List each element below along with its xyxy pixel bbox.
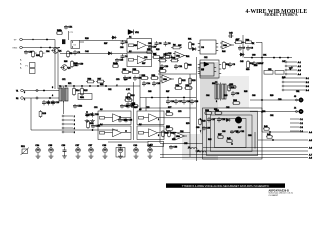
wire amp out1 — [164, 117, 190, 119]
jack J4 pin — [296, 111, 298, 113]
capacitor C50 — [148, 45, 152, 49]
scan shading region D — [218, 76, 249, 108]
pin stub P2-2 — [62, 119, 64, 121]
resistor R39 — [168, 130, 171, 137]
ground C22 — [85, 119, 90, 123]
capacitor C7 — [238, 46, 242, 51]
ground of C35 — [49, 155, 54, 159]
capacitor C22 — [85, 112, 89, 117]
junction rb b — [125, 130, 126, 131]
resistor R55 — [121, 71, 130, 74]
capacitor C1 (polarized block) — [62, 39, 65, 44]
ground of C39 — [118, 155, 123, 159]
shield box mid — [207, 112, 258, 156]
junction jack1 a — [261, 99, 262, 100]
connector block P3 — [30, 63, 36, 74]
svg-text:C74: C74 — [94, 107, 97, 109]
svg-text:R23: R23 — [156, 49, 159, 51]
capacitor C27 — [207, 117, 211, 122]
wire x140 v — [139, 74, 141, 111]
capacitor C24 — [120, 104, 124, 108]
op-amp U6A — [160, 75, 174, 83]
scan shading region B — [206, 110, 258, 156]
resistor R33 — [204, 112, 212, 115]
junction x92 b — [92, 129, 93, 130]
wire bus y97.5 — [140, 97, 196, 99]
capacitor C55b — [118, 118, 122, 122]
diode CR6 (dark) — [204, 62, 209, 67]
junction y57 d — [279, 57, 280, 58]
resistor R41 — [266, 135, 273, 138]
wire tip — [22, 39, 55, 41]
svg-text:R91: R91 — [262, 111, 265, 113]
capacitor C6 — [164, 41, 168, 46]
wire x262 v2 — [261, 58, 263, 76]
svg-text:R73: R73 — [86, 115, 89, 117]
wire x262 v — [261, 42, 263, 58]
svg-text:A-7: A-7 — [309, 153, 312, 156]
wire y132 long — [262, 131, 308, 133]
svg-text:C62: C62 — [108, 89, 111, 91]
resistor R58 — [130, 105, 139, 108]
scan shading region C — [182, 134, 203, 160]
capacitor C47b — [126, 102, 130, 107]
svg-text:R1: R1 — [16, 98, 18, 100]
resistor R3 — [67, 50, 70, 58]
capacitor C48 — [24, 50, 28, 54]
capacitor C28 — [217, 117, 221, 122]
node K1 (dark circle) — [235, 117, 241, 123]
resistor R4 — [152, 56, 161, 59]
svg-text:6: 6 — [158, 135, 159, 137]
wire tip drop — [54, 40, 56, 90]
resistor R25 — [184, 87, 193, 90]
capacitor C52b — [73, 104, 77, 108]
svg-text:C31: C31 — [263, 55, 266, 57]
svg-text:C52: C52 — [268, 69, 271, 71]
capacitor C32 — [236, 130, 240, 134]
wire y157 long — [160, 157, 308, 159]
wire y42 right — [256, 41, 262, 43]
svg-text:R50: R50 — [246, 69, 249, 71]
wire jack1 — [250, 99, 299, 101]
capacitor C21 — [174, 64, 178, 69]
junction y57 b — [261, 57, 262, 58]
hybrid amplifier A3 — [98, 111, 131, 125]
svg-text:C47: C47 — [282, 61, 285, 63]
terminal E4 — [21, 97, 24, 100]
resistor R59 — [87, 120, 90, 129]
wire y142 — [108, 141, 148, 143]
resistor R5 — [162, 56, 171, 59]
svg-text:R67: R67 — [166, 91, 169, 93]
junction ring-a — [40, 47, 41, 48]
capacitor C29 — [230, 130, 234, 134]
op-amp U8A — [173, 132, 187, 140]
pin stub P2-4 — [62, 127, 64, 129]
wire ring link — [58, 47, 60, 49]
wire y140 long — [258, 139, 308, 141]
svg-text:8: 8 — [52, 87, 53, 89]
pin stub P2-1 — [62, 115, 64, 117]
junction y72 a — [129, 71, 130, 72]
capacitor C49 — [202, 126, 206, 130]
wire amp out2 — [164, 132, 190, 134]
hybrid amplifier A1 — [127, 39, 152, 53]
diode CR2 — [107, 52, 112, 55]
hybrid amplifier A6 — [137, 126, 164, 140]
resistor R30 — [165, 128, 173, 131]
junction ring-b — [49, 47, 50, 48]
svg-text:U4A: U4A — [223, 44, 228, 47]
inductor L1 — [188, 148, 197, 150]
resistor network RN1 — [78, 94, 92, 100]
wire bus y57.5 — [244, 57, 292, 59]
resistor R12 — [247, 60, 250, 69]
resistor R65b — [56, 32, 63, 35]
jack J4 (filled) — [299, 109, 303, 113]
op-amp U2A — [173, 52, 187, 60]
connector pin P1-1 — [36, 89, 38, 91]
svg-text:R89: R89 — [270, 95, 273, 97]
svg-text:R44: R44 — [222, 51, 225, 53]
svg-text:R69: R69 — [124, 79, 127, 81]
resistor R38 — [162, 130, 165, 137]
capacitor C15 — [152, 81, 156, 86]
svg-text:C82: C82 — [226, 107, 229, 109]
svg-text:R95: R95 — [64, 61, 67, 63]
hybrid amplifier A5 — [137, 111, 164, 125]
ground of C36 — [62, 154, 67, 158]
svg-text:T1: T1 — [16, 90, 18, 92]
svg-text:R83: R83 — [166, 127, 169, 129]
resistor R42 — [226, 140, 233, 143]
junction y97 c — [183, 97, 184, 98]
resistor R15 — [81, 87, 84, 96]
capacitor C2 — [73, 50, 77, 55]
wire y154 long — [160, 154, 308, 156]
capacitor C33 — [169, 145, 173, 149]
svg-text:R79: R79 — [186, 123, 189, 125]
svg-text:4: 4 — [52, 95, 53, 97]
svg-text:U6A: U6A — [163, 78, 168, 81]
pin stub J2-4 — [282, 89, 284, 91]
svg-text:C94: C94 — [46, 51, 49, 53]
shield box innermost — [215, 119, 247, 148]
resistor R19 — [140, 77, 149, 80]
capacitor C14 — [142, 81, 146, 86]
diode CR4 — [191, 47, 196, 50]
svg-text:R65: R65 — [244, 91, 247, 93]
wire y151 long — [195, 150, 308, 152]
capacitor C42 — [228, 34, 233, 38]
capacitor C59 — [75, 62, 79, 66]
wire x190 v — [189, 74, 191, 157]
capacitor C39 (boxed) — [116, 148, 125, 158]
wire ring — [22, 47, 60, 49]
resistor R22 — [179, 77, 182, 85]
svg-text:R53: R53 — [172, 139, 175, 141]
resistor R62 — [185, 62, 188, 69]
junction bus86 x82 — [81, 85, 82, 86]
svg-text:C84: C84 — [180, 131, 183, 133]
junction x86 a — [86, 111, 87, 112]
svg-text:C98: C98 — [120, 47, 123, 49]
wire x196 v — [196, 57, 198, 161]
resistor R29 — [165, 113, 173, 116]
pin stub J2-3 — [282, 85, 284, 87]
junction y57 a — [251, 57, 252, 58]
capacitor C18 — [182, 99, 186, 104]
resistor network RN2 — [264, 71, 284, 75]
svg-text:C25: C25 — [168, 53, 171, 55]
svg-text:C21: C21 — [144, 57, 147, 59]
svg-text:C66: C66 — [252, 95, 255, 97]
resistor R2 — [40, 50, 43, 58]
resistor R13 — [39, 110, 42, 118]
wire y108 — [140, 107, 196, 109]
capacitor C9 — [228, 62, 232, 67]
ground of C40 — [134, 155, 139, 159]
capacitor C5 — [155, 41, 159, 46]
pin stub J5-1 — [290, 118, 299, 120]
svg-text:R52: R52 — [100, 84, 103, 86]
IC U3 — [198, 40, 218, 54]
capacitor C17 — [174, 99, 178, 104]
svg-text:C64: C64 — [206, 95, 209, 97]
resistor R1 — [32, 50, 35, 58]
wire y143 — [160, 143, 203, 145]
svg-text:7: 7 — [200, 131, 201, 133]
pin stub J5-3 — [290, 126, 299, 128]
wire x146 v — [145, 98, 147, 112]
varistor RV1 — [21, 148, 30, 156]
capacitor C25 — [126, 104, 130, 108]
svg-text:R61: R61 — [186, 56, 189, 58]
capacitor C8 — [246, 46, 250, 51]
diode CR5 — [239, 53, 244, 56]
wire x262 v3 — [261, 76, 263, 132]
svg-text:TTN3067A 4-WIRE VOICE ALONG SE: TTN3067A 4-WIRE VOICE ALONG SECURENET DA… — [182, 184, 270, 188]
wire x133 v — [133, 82, 135, 140]
resistor R34 — [214, 112, 222, 115]
svg-text:R47: R47 — [260, 63, 263, 65]
svg-text:100: 100 — [212, 83, 215, 85]
svg-text:C92: C92 — [270, 115, 273, 117]
junction bus86 x74 — [73, 85, 74, 86]
op-amp U4A — [220, 41, 234, 49]
junction y97 a — [151, 97, 152, 98]
svg-text:R97: R97 — [104, 43, 107, 45]
junction x243 a — [242, 42, 243, 43]
svg-text:R49: R49 — [282, 77, 285, 79]
svg-text:C51: C51 — [296, 91, 299, 93]
jack J3 (filled) — [299, 98, 303, 102]
junction br a — [269, 131, 270, 132]
wire u1 right — [80, 41, 85, 43]
svg-text:3: 3 — [216, 101, 217, 103]
jack J3 pin — [296, 99, 298, 101]
capacitor C12 — [47, 100, 51, 105]
resistor R16 — [86, 80, 95, 83]
pin stub J5-4 — [290, 130, 299, 132]
pin stub J2-2 — [282, 81, 284, 83]
svg-text:C55: C55 — [184, 143, 187, 145]
wire y74 — [158, 73, 196, 75]
diode CR7 — [225, 118, 230, 121]
title bar — [166, 183, 285, 187]
capacitor C20 — [160, 64, 164, 69]
wire x31 drop — [30, 98, 32, 130]
junction t1-a — [43, 90, 44, 91]
svg-text:C86: C86 — [222, 131, 225, 133]
wire x163 drop — [162, 144, 164, 158]
pin stub J5-2 — [290, 122, 299, 124]
inductor L2 — [197, 151, 206, 153]
svg-text:C68: C68 — [148, 91, 151, 93]
junction bus86 x98 — [97, 85, 98, 86]
resistor R21 — [158, 70, 167, 73]
junction bus86 x90 — [89, 85, 90, 86]
svg-text:C78: C78 — [178, 111, 181, 113]
svg-text:U2A: U2A — [176, 54, 181, 57]
svg-text:R63: R63 — [224, 95, 227, 97]
svg-text:A-6: A-6 — [309, 146, 312, 149]
resistor R10 — [244, 41, 253, 44]
svg-text:C80: C80 — [196, 127, 199, 129]
svg-text:RING: RING — [13, 47, 18, 49]
wire y130 run — [31, 129, 118, 131]
svg-text:C12: C12 — [204, 57, 207, 59]
IC U7 — [198, 63, 216, 76]
resistor R35 — [228, 84, 231, 92]
connector pin P1-2 — [36, 97, 38, 99]
ground of C34 — [36, 155, 41, 159]
svg-text:U8A: U8A — [176, 135, 181, 138]
svg-text:MODEL TTN3067A: MODEL TTN3067A — [264, 13, 297, 17]
capacitor C11 — [42, 100, 46, 105]
resistor R66 — [71, 60, 74, 68]
junction bus86 x106 — [105, 85, 106, 86]
wire t1 — [23, 90, 59, 92]
wire x160 v — [159, 61, 161, 144]
svg-text:C58: C58 — [148, 43, 151, 45]
ground of C38 — [103, 155, 108, 159]
capacitor C53 — [115, 58, 119, 62]
resistor R57b — [124, 99, 133, 102]
wire bus y86 — [60, 85, 140, 87]
junction bus86 x66 — [65, 85, 66, 86]
junction r1-a — [49, 97, 50, 98]
wire bus y53 — [60, 52, 127, 54]
svg-text:A-4: A-4 — [309, 131, 312, 134]
IC U1 resistor pack — [71, 41, 80, 49]
svg-text:A-5: A-5 — [309, 139, 312, 142]
pin stub J1-1 — [285, 61, 287, 63]
capacitor C46 — [133, 76, 137, 81]
svg-text:C17: C17 — [236, 39, 239, 41]
transformer T1 — [59, 87, 68, 103]
ground of C41 — [148, 155, 153, 159]
terminal E2 — [20, 46, 23, 49]
junction br b — [272, 139, 273, 140]
wire x255 v — [254, 132, 256, 149]
pin stub J1-4 — [285, 73, 287, 75]
junction tip-a — [32, 39, 33, 40]
diode CR3 (dark) — [128, 30, 134, 35]
diode CR8 — [288, 65, 294, 70]
resistor R43 — [199, 118, 202, 125]
resistor R11 — [223, 61, 226, 70]
wire ring drop — [57, 48, 59, 90]
resistor R60 — [146, 51, 153, 54]
transformer T2 — [215, 83, 226, 101]
capacitor C16 — [166, 99, 170, 104]
resistor R28 — [170, 59, 179, 62]
capacitor C23 — [91, 112, 95, 117]
resistor R17 — [96, 80, 105, 83]
resistor R32 — [228, 86, 237, 89]
svg-text:R85: R85 — [208, 139, 211, 141]
transistor Q1 — [16, 25, 312, 161]
pin stub J1-2 — [285, 65, 287, 67]
svg-text:C90: C90 — [278, 99, 281, 101]
resistor R64b — [112, 65, 119, 68]
svg-text:1: 1 — [158, 119, 159, 121]
junction shield a — [231, 143, 232, 144]
capacitor C3 — [121, 40, 125, 45]
svg-text:R71: R71 — [68, 83, 71, 85]
resistor R27 — [158, 59, 167, 62]
capacitor C45 — [123, 76, 127, 81]
junction y57 e — [287, 57, 288, 58]
pin stub P2-5 — [62, 131, 64, 133]
resistor R18 — [128, 92, 131, 101]
pin stub J1-3 — [285, 69, 287, 71]
capacitor C56 — [124, 118, 128, 122]
svg-text:C43: C43 — [240, 61, 243, 63]
shield box outer — [203, 108, 263, 159]
svg-text:R31: R31 — [188, 39, 191, 41]
relay K2 box — [148, 141, 164, 146]
svg-text:R87: R87 — [238, 127, 241, 129]
IC U5 — [198, 60, 221, 78]
ground of C57 — [89, 155, 94, 159]
junction rb a — [119, 116, 120, 117]
junction y97 b — [167, 97, 168, 98]
wire y147 long — [203, 147, 308, 149]
terminal E1 — [20, 38, 23, 41]
wire r1 — [23, 97, 59, 99]
resistor R36 — [232, 102, 240, 105]
svg-text:R45: R45 — [254, 65, 257, 67]
svg-text:C72: C72 — [62, 79, 65, 81]
hybrid amplifier A2 — [127, 53, 152, 67]
svg-text:5: 5 — [24, 92, 25, 94]
junction tip-b — [46, 39, 47, 40]
svg-text:C30: C30 — [252, 55, 255, 57]
resistor R56 — [131, 71, 140, 74]
resistor R6 — [171, 46, 182, 49]
resistor R7 — [164, 55, 173, 58]
pin stub P2-3 — [62, 123, 64, 125]
wire T1 bottom — [63, 101, 65, 114]
capacitor C51b — [91, 124, 95, 128]
resistor R40 — [263, 127, 270, 130]
wire x243 v — [242, 35, 244, 58]
svg-text:C70: C70 — [116, 79, 119, 81]
svg-text:R99: R99 — [134, 45, 137, 47]
